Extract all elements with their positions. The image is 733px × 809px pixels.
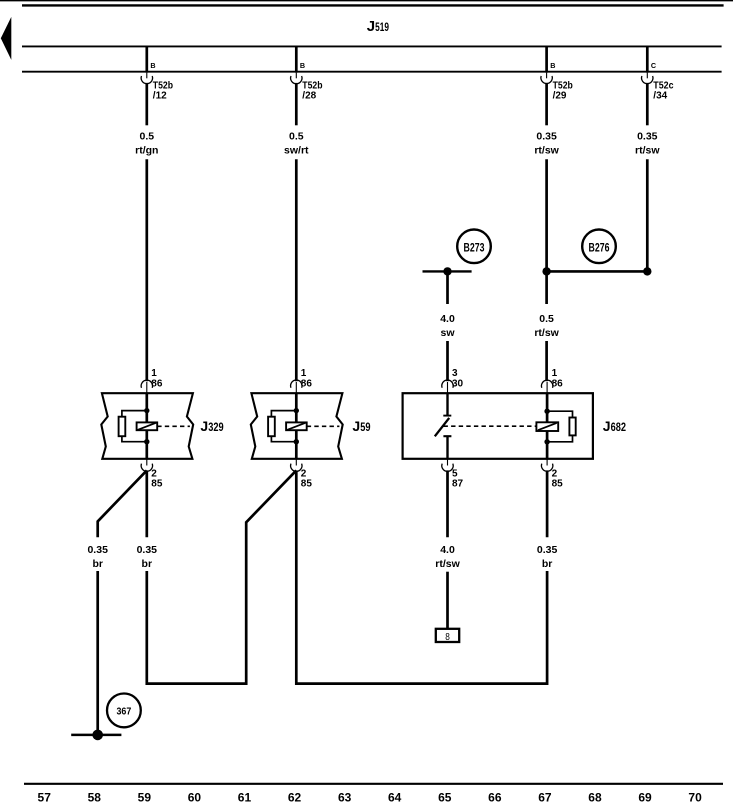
svg-text:0.5: 0.5 — [139, 130, 154, 142]
relay J329 box — [101, 393, 193, 459]
wire 4.0 rt/sw from J682/87 — [446, 470, 449, 537]
connector T52b/28 — [295, 73, 297, 79]
current-flow arrow — [1, 17, 12, 60]
svg-text:0.35: 0.35 — [536, 130, 557, 142]
J59 shunt resistor — [268, 417, 275, 437]
J682 pin 2/85 connector — [546, 459, 548, 466]
J329 shunt resistor — [119, 417, 126, 437]
svg-text:64: 64 — [388, 791, 402, 805]
pin 2/85 connector — [146, 459, 148, 466]
junction dot — [144, 439, 149, 444]
wire link J59/85 to J682/85 — [296, 470, 547, 683]
bus rail upper — [22, 45, 722, 47]
connector T52c/34 — [646, 73, 648, 79]
node B276 — [582, 230, 616, 264]
connector T52b/29 — [546, 73, 548, 79]
J682 pin 3/30 connector — [447, 382, 449, 393]
wire 0.5 sw/rt — [295, 83, 298, 125]
svg-text:C: C — [651, 61, 656, 70]
connector T52b/12 — [146, 73, 148, 79]
svg-text:0.35: 0.35 — [137, 544, 158, 556]
svg-text:86: 86 — [552, 379, 564, 390]
svg-text:1: 1 — [552, 368, 558, 379]
junction dot — [144, 408, 149, 413]
svg-text:58: 58 — [88, 791, 102, 805]
svg-text:62: 62 — [288, 791, 302, 805]
svg-text:85: 85 — [552, 479, 564, 490]
svg-text:B273: B273 — [464, 240, 485, 254]
J682 switch top contact — [446, 393, 448, 415]
svg-text:367: 367 — [117, 705, 132, 717]
svg-text:86: 86 — [151, 379, 163, 390]
J329 actuation dashed link — [157, 425, 190, 427]
J59 internal wire — [295, 393, 298, 459]
wire to J59 pin 1 — [295, 159, 298, 381]
ground point 367 — [71, 734, 121, 737]
svg-text:1: 1 — [301, 368, 307, 379]
svg-text:/29: /29 — [553, 91, 567, 102]
svg-text:68: 68 — [588, 791, 602, 805]
wire 0.35 br J682/85 — [546, 470, 549, 537]
wire drop from J519 at x=146.8 — [145, 46, 148, 73]
svg-text:B: B — [150, 61, 155, 70]
bus bar J519 — [22, 4, 724, 6]
svg-text:61: 61 — [238, 791, 252, 805]
junction dot — [443, 267, 451, 275]
J682 pin 5/87 connector — [447, 459, 449, 466]
svg-text:/28: /28 — [302, 91, 316, 102]
J59 shunt branch — [271, 411, 296, 442]
junction dot — [544, 439, 549, 444]
svg-text:br: br — [142, 558, 153, 570]
svg-text:57: 57 — [38, 791, 52, 805]
svg-text:0.5: 0.5 — [539, 313, 554, 325]
wire 0.35 br J329/85 down — [145, 470, 148, 537]
J682 coil wire — [546, 393, 549, 459]
junction dot — [544, 409, 549, 414]
svg-text:70: 70 — [688, 791, 702, 805]
svg-text:br: br — [542, 558, 553, 570]
J682 pin 1/86 connector — [546, 382, 548, 393]
junction dot — [542, 267, 550, 275]
wire from T52c/34 to junction — [646, 159, 649, 271]
node B273 — [457, 230, 491, 264]
svg-text:B: B — [300, 61, 305, 70]
svg-text:B276: B276 — [589, 240, 610, 254]
wire 0.35 rt/sw — [646, 83, 649, 125]
svg-text:0.35: 0.35 — [537, 544, 558, 556]
svg-text:0.35: 0.35 — [637, 130, 658, 142]
wire 0.5 rt/gn — [145, 83, 148, 125]
node 367 — [107, 694, 141, 728]
node B273 bar — [423, 270, 472, 272]
svg-text:sw/rt: sw/rt — [284, 144, 309, 156]
svg-text:63: 63 — [338, 791, 352, 805]
svg-text:rt/sw: rt/sw — [534, 327, 559, 339]
svg-text:/12: /12 — [153, 91, 167, 102]
svg-text:85: 85 — [151, 479, 163, 490]
svg-text:4.0: 4.0 — [440, 544, 455, 556]
J59 coil winding — [286, 422, 307, 430]
svg-text:/34: /34 — [653, 91, 667, 102]
wire 0.5 rt/sw to J682 pin 1 — [545, 271, 548, 304]
relay J59 box — [251, 393, 343, 459]
wire to J329 pin 1 — [145, 159, 148, 381]
svg-text:rt/sw: rt/sw — [435, 558, 460, 570]
wire drop from J519 at x=296.3 — [295, 46, 298, 73]
svg-text:3: 3 — [452, 368, 458, 379]
svg-text:30: 30 — [452, 379, 464, 390]
svg-text:4.0: 4.0 — [440, 313, 455, 325]
svg-text:sw: sw — [440, 327, 455, 339]
pin 2/85 connector — [295, 459, 297, 466]
pin 1/86 connector — [146, 382, 148, 393]
J329 shunt branch — [122, 411, 147, 442]
svg-text:59: 59 — [138, 791, 152, 805]
J682 shunt resistor — [569, 418, 575, 436]
svg-text:65: 65 — [438, 791, 452, 805]
J682 switch lever — [435, 418, 449, 436]
wire 0.35 rt/sw — [545, 83, 548, 125]
svg-text:rt/sw: rt/sw — [635, 144, 660, 156]
svg-text:87: 87 — [452, 479, 464, 490]
J329 internal wire — [145, 393, 148, 459]
svg-text:0.5: 0.5 — [289, 130, 304, 142]
J329 coil winding — [137, 422, 158, 430]
wire 4.0 sw to J682 pin 3 — [446, 271, 449, 304]
svg-text:rt/gn: rt/gn — [135, 144, 158, 156]
svg-text:85: 85 — [301, 479, 313, 490]
svg-text:86: 86 — [301, 379, 313, 390]
node B276 link — [547, 270, 648, 273]
svg-text:B: B — [550, 61, 555, 70]
J682 actuation dashed link — [444, 425, 537, 427]
svg-text:rt/sw: rt/sw — [534, 144, 559, 156]
wire drop from J519 at x=546.6 — [545, 46, 548, 73]
svg-text:8: 8 — [445, 631, 450, 643]
junction dot — [294, 439, 299, 444]
svg-text:69: 69 — [638, 791, 652, 805]
wire drop from J519 at x=647.3 — [646, 46, 649, 73]
svg-text:br: br — [92, 558, 103, 570]
wire link J329/85 to J59/85 — [147, 470, 296, 683]
pin 1/86 connector — [295, 382, 297, 393]
J682 shunt branch — [547, 411, 572, 442]
svg-text:0.35: 0.35 — [87, 544, 108, 556]
J59 actuation dashed link — [307, 425, 340, 427]
J682 coil winding — [536, 422, 558, 431]
J682 switch bottom contact — [443, 435, 451, 437]
grid scale line — [24, 783, 723, 785]
relay J682 box — [403, 393, 593, 459]
svg-text:60: 60 — [188, 791, 202, 805]
ground connection 8 — [436, 629, 459, 642]
svg-text:66: 66 — [488, 791, 502, 805]
svg-text:67: 67 — [538, 791, 552, 805]
wire 0.35 br from J329/85 to ground — [98, 470, 147, 537]
bus rail lower — [22, 71, 722, 73]
svg-text:1: 1 — [151, 368, 157, 379]
wire to junction at B276 — [545, 159, 548, 271]
junction dot — [294, 408, 299, 413]
junction dot — [643, 267, 651, 275]
